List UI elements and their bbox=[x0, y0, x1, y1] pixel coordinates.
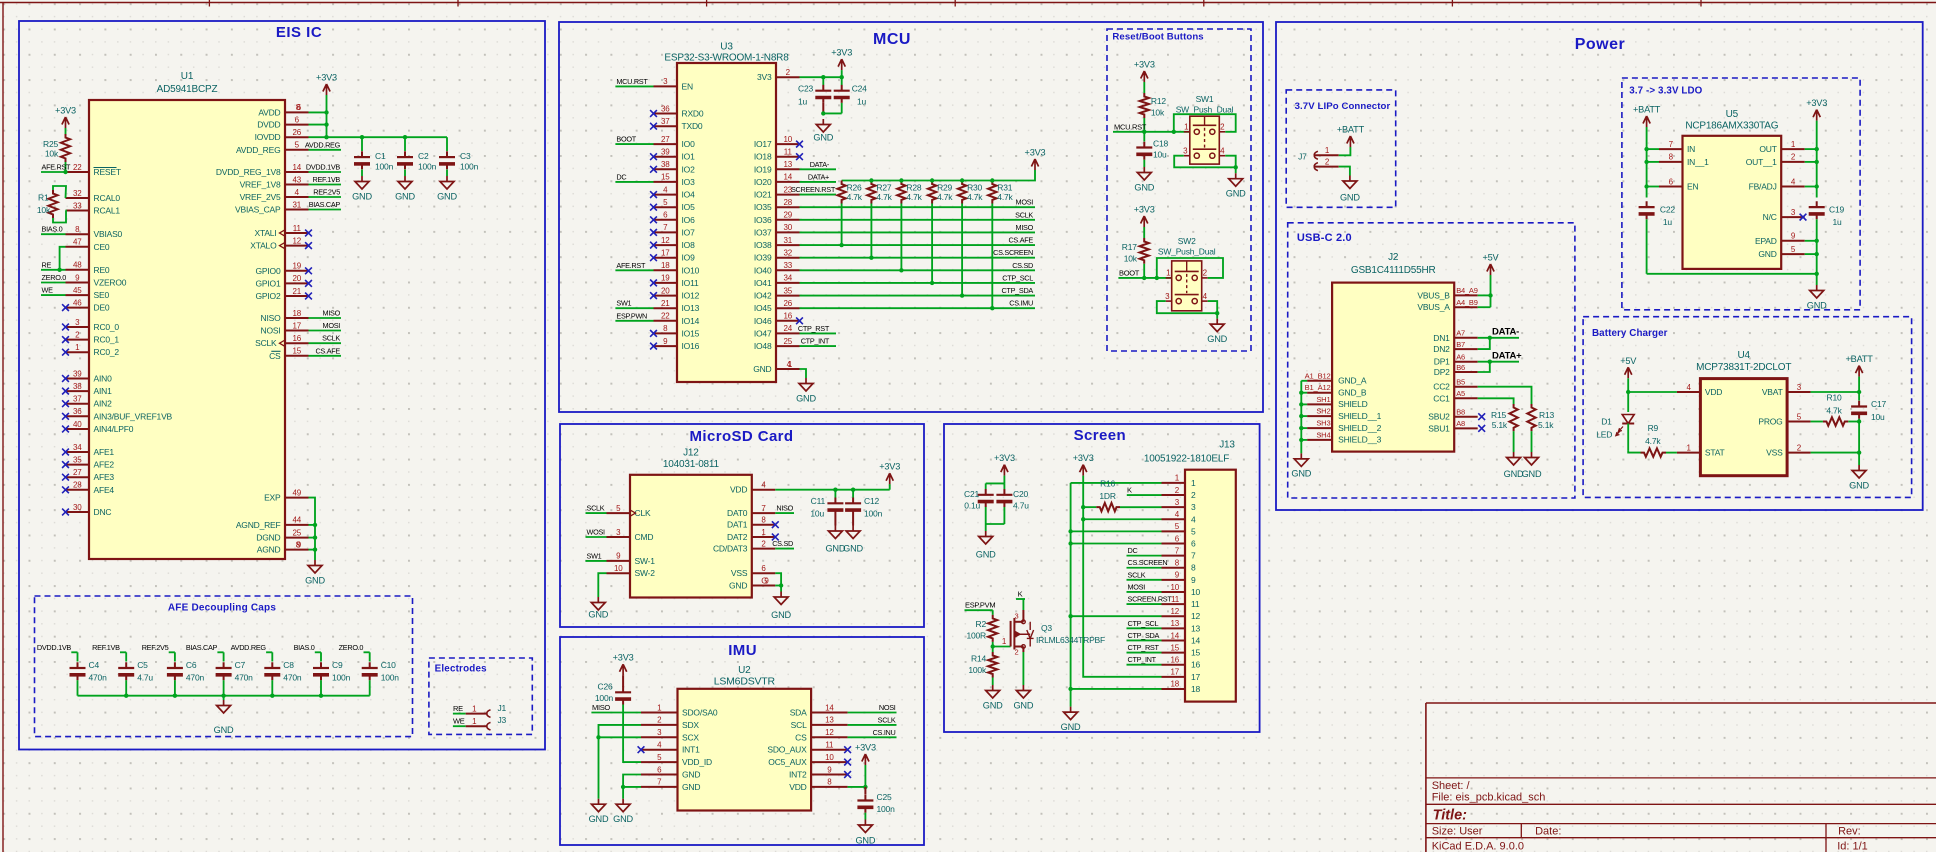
U5 pin 6 EN bbox=[1659, 177, 1698, 191]
svg-text:17: 17 bbox=[661, 249, 670, 258]
svg-text:U2: U2 bbox=[738, 665, 751, 676]
svg-text:44: 44 bbox=[293, 516, 302, 525]
capacitor C20 4.7u bbox=[996, 483, 1029, 524]
title block text KiCad bbox=[1432, 841, 1868, 852]
svg-text:SCREEN.RST: SCREEN.RST bbox=[791, 185, 836, 194]
svg-text:K: K bbox=[1127, 486, 1132, 495]
svg-text:IO21: IO21 bbox=[754, 190, 772, 200]
svg-text:VSS: VSS bbox=[1766, 448, 1783, 458]
svg-text:Title:: Title: bbox=[1433, 808, 1468, 824]
svg-text:VDD_ID: VDD_ID bbox=[682, 757, 712, 767]
svg-text:U4: U4 bbox=[1738, 350, 1751, 361]
svg-text:ESP32-S3-WROOM-1-N8R8: ESP32-S3-WROOM-1-N8R8 bbox=[664, 53, 789, 64]
connector J2 GSB1C4111D55HR body bbox=[1332, 252, 1454, 452]
label K at Q3 drain bbox=[1016, 590, 1025, 617]
U3 pin 39 IO1 bbox=[654, 148, 696, 162]
label NISO at DAT0 bbox=[775, 504, 794, 513]
capacitor C4 470n bbox=[70, 660, 108, 696]
U3 pin 25 IO48 bbox=[754, 337, 800, 351]
U1 pin 15 CS bbox=[269, 347, 308, 361]
svg-text:IO5: IO5 bbox=[682, 202, 696, 212]
svg-text:4.7k: 4.7k bbox=[906, 192, 922, 202]
U3 pin 19 IO11 bbox=[654, 274, 699, 288]
svg-text:IO48: IO48 bbox=[754, 341, 772, 351]
svg-text:IO1: IO1 bbox=[682, 152, 696, 162]
J13 pin 2 bbox=[1162, 486, 1197, 500]
switch SW2 SW_Push_Dual bbox=[1158, 236, 1216, 311]
J12 pin 10 SW-2 bbox=[607, 564, 656, 578]
wire J13 riser +3V3 bbox=[1081, 476, 1162, 677]
svg-text:SCLK: SCLK bbox=[878, 715, 896, 724]
U3 pin 16 IO46 bbox=[754, 312, 800, 326]
svg-text:35: 35 bbox=[73, 455, 82, 464]
svg-text:3: 3 bbox=[1165, 292, 1170, 301]
wire EPAD GND to rail bbox=[1805, 239, 1819, 257]
wire U3 GND pin bbox=[800, 369, 807, 378]
no-connect X bbox=[1478, 425, 1485, 432]
J12 pin 4 VDD bbox=[730, 481, 775, 495]
svg-text:12: 12 bbox=[661, 236, 670, 245]
U1 pin 4 VREF_2V5 bbox=[240, 188, 309, 202]
svg-text:GND: GND bbox=[976, 550, 996, 560]
svg-text:SCX: SCX bbox=[682, 732, 699, 742]
svg-text:5.1k: 5.1k bbox=[1538, 420, 1554, 430]
svg-text:XTALI: XTALI bbox=[255, 228, 277, 238]
wire R29 to row bbox=[930, 204, 934, 286]
U5 pin 3 N/C bbox=[1763, 208, 1805, 222]
svg-text:DGND: DGND bbox=[256, 533, 280, 543]
svg-text:AFE3: AFE3 bbox=[94, 472, 115, 482]
svg-text:BIAS.0: BIAS.0 bbox=[42, 225, 63, 234]
svg-text:B8: B8 bbox=[1456, 408, 1465, 417]
no-connect X bbox=[62, 336, 69, 343]
U1 pin 20 GPIO1 bbox=[256, 274, 309, 288]
ground C18 bbox=[1134, 167, 1154, 193]
svg-text:7: 7 bbox=[761, 504, 766, 513]
svg-text:SW1: SW1 bbox=[587, 551, 602, 560]
svg-text:C6: C6 bbox=[186, 660, 197, 670]
svg-text:MISO: MISO bbox=[592, 703, 610, 712]
no-connect X bbox=[62, 388, 69, 395]
svg-text:IO20: IO20 bbox=[754, 177, 772, 187]
svg-text:2: 2 bbox=[1191, 490, 1196, 500]
svg-text:100R: 100R bbox=[966, 631, 986, 641]
no-connect X bbox=[844, 746, 851, 753]
svg-text:MOSI: MOSI bbox=[1128, 582, 1146, 591]
svg-text:C24: C24 bbox=[852, 83, 867, 93]
svg-text:8: 8 bbox=[1191, 563, 1196, 573]
svg-text:Power: Power bbox=[1575, 36, 1626, 53]
transistor Q3 IRLML6344TRPBF bbox=[1011, 612, 1105, 657]
svg-text:WE: WE bbox=[42, 286, 54, 295]
J12 pin 7 DAT0 bbox=[727, 504, 775, 518]
J2 pin SH2 SHIELD__1 bbox=[1307, 407, 1382, 421]
wire GND pins to ground bbox=[621, 775, 641, 799]
ground SW2 bbox=[1207, 319, 1227, 345]
U3 pin 8 IO15 bbox=[654, 324, 700, 338]
U1 pin 5 AVDD_REG bbox=[236, 141, 309, 155]
no-connect X N/C bbox=[1800, 214, 1807, 221]
svg-text:8: 8 bbox=[827, 778, 832, 787]
no-connect X bbox=[62, 474, 69, 481]
svg-text:10u: 10u bbox=[1153, 150, 1167, 160]
U2 pin 2 SDX bbox=[641, 716, 699, 730]
U1 pin 14 DVDD_REG_1V8 bbox=[216, 163, 309, 177]
no-connect X bbox=[62, 324, 69, 331]
svg-text:3: 3 bbox=[1791, 208, 1796, 217]
svg-text:R16: R16 bbox=[1100, 479, 1115, 489]
resistor R27 4.7k bbox=[867, 181, 892, 204]
svg-text:40: 40 bbox=[73, 420, 82, 429]
svg-text:C18: C18 bbox=[1153, 139, 1168, 149]
svg-text:NISO: NISO bbox=[776, 504, 793, 513]
svg-text:4: 4 bbox=[1203, 292, 1208, 301]
ground U4 bbox=[1849, 465, 1869, 491]
junction R29 rail bbox=[930, 178, 934, 182]
svg-text:R13: R13 bbox=[1539, 410, 1554, 420]
svg-text:+3V3: +3V3 bbox=[316, 73, 337, 83]
U1 pin 25 DGND bbox=[256, 528, 308, 542]
no-connect X bbox=[62, 449, 69, 456]
svg-text:DVDD: DVDD bbox=[257, 120, 280, 130]
ground C12 bbox=[843, 526, 863, 554]
J13 pin 8 bbox=[1162, 559, 1197, 573]
svg-text:RE: RE bbox=[42, 260, 52, 269]
svg-text:GND: GND bbox=[843, 544, 863, 554]
J13 pin 5 bbox=[1162, 522, 1197, 536]
svg-text:CTP_RST: CTP_RST bbox=[798, 324, 830, 333]
U4 pin 2 VSS bbox=[1766, 443, 1810, 457]
wire caps bottom bbox=[986, 524, 1005, 531]
svg-text:OUT: OUT bbox=[1759, 144, 1776, 154]
svg-text:IO45: IO45 bbox=[754, 303, 772, 313]
ground U1 bbox=[305, 560, 325, 586]
junction R30 rail bbox=[960, 178, 964, 182]
svg-text:17: 17 bbox=[1191, 672, 1201, 682]
svg-text:VDD: VDD bbox=[789, 782, 806, 792]
svg-text:18: 18 bbox=[1191, 684, 1201, 694]
svg-text:48: 48 bbox=[73, 261, 82, 270]
svg-text:IO15: IO15 bbox=[682, 328, 700, 338]
svg-text:10k: 10k bbox=[1151, 108, 1165, 118]
svg-text:GND: GND bbox=[1061, 722, 1081, 732]
J2 pin A6 DP1 bbox=[1434, 353, 1478, 367]
no-connect X bbox=[62, 461, 69, 468]
svg-text:+3V3: +3V3 bbox=[1134, 205, 1155, 215]
svg-text:CTP_SCL: CTP_SCL bbox=[1002, 273, 1033, 282]
ground C25 bbox=[855, 820, 875, 846]
no-connect X bbox=[650, 330, 657, 337]
U3 pin 9 IO16 bbox=[654, 337, 700, 351]
svg-text:Q3: Q3 bbox=[1041, 623, 1052, 633]
svg-text:R12: R12 bbox=[1151, 96, 1166, 106]
ground SW1 bbox=[1226, 173, 1246, 199]
U1 pin 6 DVDD bbox=[257, 115, 308, 129]
svg-text:28: 28 bbox=[784, 198, 793, 207]
wire CE0 to RE0 bbox=[60, 247, 66, 270]
U3 pin 38 IO2 bbox=[654, 160, 696, 174]
svg-text:AFE4: AFE4 bbox=[94, 485, 115, 495]
U3 pin 33 IO40 bbox=[754, 261, 800, 275]
U3 pin 10 IO17 bbox=[754, 135, 800, 149]
no-connect X bbox=[650, 280, 657, 287]
svg-text:36: 36 bbox=[661, 104, 670, 113]
svg-text:IO46: IO46 bbox=[754, 316, 772, 326]
svg-text:CLK: CLK bbox=[635, 508, 651, 518]
U1 pin 28 AFE4 bbox=[66, 481, 115, 495]
svg-text:EN: EN bbox=[682, 81, 693, 91]
U3 pin 36 RXD0 bbox=[654, 104, 704, 118]
label REF.2V5 bbox=[309, 188, 342, 198]
U1 pin 33 RCAL1 bbox=[66, 201, 121, 215]
wire VSS GND to ground bbox=[775, 573, 783, 591]
J13 pin 11 bbox=[1162, 595, 1200, 609]
label CTP_SDA bbox=[1127, 631, 1162, 641]
label WOSI bbox=[586, 528, 607, 538]
label AVDD.REG bbox=[231, 643, 273, 661]
svg-text:0.1u: 0.1u bbox=[964, 501, 980, 511]
svg-text:C7: C7 bbox=[235, 660, 246, 670]
svg-text:10u: 10u bbox=[1871, 412, 1885, 422]
MCU U3 ESP32-S3-WROOM-1-N8R8 body bbox=[664, 42, 789, 383]
svg-text:GND: GND bbox=[305, 576, 325, 586]
clock chevron bbox=[280, 230, 286, 236]
svg-text:IO16: IO16 bbox=[682, 341, 700, 351]
label MCU.RST to SW1 bbox=[1113, 122, 1190, 134]
J13 pin 16 bbox=[1162, 656, 1201, 670]
svg-text:CC1: CC1 bbox=[1433, 393, 1450, 403]
svg-text:IOVDD: IOVDD bbox=[255, 132, 281, 142]
svg-text:34: 34 bbox=[784, 274, 793, 283]
svg-text:4.7k: 4.7k bbox=[1826, 406, 1842, 416]
U2 pin 14 SDA bbox=[790, 703, 848, 717]
svg-text:A4_B9: A4_B9 bbox=[1456, 298, 1478, 307]
label BIAS.0 at VBIAS0 bbox=[41, 225, 66, 235]
svg-text:DVDD.1VB: DVDD.1VB bbox=[306, 163, 341, 172]
svg-text:CS.SCREEN: CS.SCREEN bbox=[1128, 558, 1168, 567]
svg-text:SDA: SDA bbox=[790, 708, 807, 718]
svg-text:17: 17 bbox=[1171, 668, 1180, 677]
svg-text:1u: 1u bbox=[1663, 217, 1673, 227]
svg-text:AFE Decoupling Caps: AFE Decoupling Caps bbox=[168, 603, 276, 614]
U1 pin 21 GPIO2 bbox=[256, 287, 309, 301]
svg-text:CMD: CMD bbox=[635, 532, 654, 542]
J13 pin 4 bbox=[1162, 510, 1197, 524]
label BOOT to SW2 bbox=[1118, 268, 1172, 280]
U2 pin 3 SCX bbox=[641, 728, 699, 742]
svg-text:8: 8 bbox=[761, 516, 766, 525]
svg-text:11: 11 bbox=[784, 148, 793, 157]
wire CS.AFE row bbox=[800, 236, 1036, 246]
power +3V3 rail above U1 bbox=[316, 73, 337, 138]
svg-text:4.7k: 4.7k bbox=[967, 192, 983, 202]
U1 pin 2 RC0_1 bbox=[66, 330, 120, 344]
ground J2 shield bbox=[1291, 453, 1311, 478]
wire VBAT to +BATT bbox=[1811, 377, 1862, 395]
svg-text:+BATT: +BATT bbox=[1337, 125, 1365, 135]
svg-text:4.7u: 4.7u bbox=[137, 673, 153, 683]
wire C26 to VDD_ID bbox=[623, 705, 641, 763]
ground R13 bbox=[1522, 452, 1542, 479]
svg-text:FB/ADJ: FB/ADJ bbox=[1749, 182, 1777, 192]
svg-text:C10: C10 bbox=[381, 660, 396, 670]
U5 pin 8 IN__1 bbox=[1659, 153, 1709, 167]
svg-text:AFE1: AFE1 bbox=[94, 447, 115, 457]
svg-text:R17: R17 bbox=[1122, 242, 1137, 252]
no-connect X bbox=[305, 230, 312, 237]
resistor R1 10k loop bbox=[37, 186, 66, 223]
wire AVDD to rail bbox=[309, 110, 329, 114]
svg-text:34: 34 bbox=[73, 443, 82, 452]
svg-text:6: 6 bbox=[1191, 539, 1196, 549]
svg-text:IO13: IO13 bbox=[682, 303, 700, 313]
U3 pin 411 GND bbox=[753, 360, 799, 374]
svg-text:CS.IMU: CS.IMU bbox=[1009, 299, 1033, 308]
ground Q3 bbox=[1013, 685, 1033, 711]
svg-text:CS.SD: CS.SD bbox=[772, 539, 793, 548]
no-connect X bbox=[1478, 413, 1485, 420]
label BIAS.CAP bbox=[186, 643, 224, 661]
svg-text:C2: C2 bbox=[418, 151, 429, 161]
U4 pin 5 PROG bbox=[1758, 412, 1810, 426]
no-connect X bbox=[305, 267, 312, 274]
capacitor C2 100n bbox=[397, 137, 437, 176]
junction R28 rail bbox=[899, 178, 903, 182]
svg-text:ESP.PVM: ESP.PVM bbox=[965, 601, 995, 610]
svg-text:12: 12 bbox=[825, 728, 834, 737]
title block text Size Date bbox=[1432, 826, 1861, 838]
label SW1 bbox=[615, 299, 653, 309]
svg-text:DNC: DNC bbox=[94, 507, 112, 517]
svg-text:GSB1C4111D55HR: GSB1C4111D55HR bbox=[1351, 265, 1436, 276]
label REF.2V5 bbox=[142, 643, 175, 661]
svg-text:SH1: SH1 bbox=[1316, 395, 1330, 404]
wire +5V to VDD bbox=[1626, 378, 1677, 412]
wire R30 to row bbox=[960, 204, 964, 298]
resistor R30 4.7k bbox=[958, 181, 983, 204]
svg-text:C1: C1 bbox=[375, 151, 386, 161]
no-connect X bbox=[62, 426, 69, 433]
svg-text:SCLK: SCLK bbox=[1128, 570, 1146, 579]
sub-box Electrodes bbox=[429, 658, 532, 734]
svg-text:IO41: IO41 bbox=[754, 278, 772, 288]
svg-text:16: 16 bbox=[1171, 656, 1180, 665]
J2 pin A7 DN1 bbox=[1433, 329, 1477, 343]
U1 pin 8 VBIAS0 bbox=[66, 225, 123, 239]
svg-text:EIS IC: EIS IC bbox=[276, 24, 322, 41]
svg-text:4: 4 bbox=[1220, 146, 1225, 155]
svg-text:IO12: IO12 bbox=[682, 291, 700, 301]
wire R26 to row bbox=[839, 204, 843, 248]
svg-text:2: 2 bbox=[1791, 153, 1796, 162]
wire +BATT to U5 inputs bbox=[1644, 127, 1659, 198]
label CTP_SCL bbox=[1127, 619, 1162, 629]
svg-text:ZERO.0: ZERO.0 bbox=[339, 643, 364, 652]
svg-text:43: 43 bbox=[293, 175, 302, 184]
U5 pin 9 EPAD bbox=[1755, 232, 1805, 246]
svg-text:13: 13 bbox=[825, 716, 834, 725]
svg-text:AIN4/LPF0: AIN4/LPF0 bbox=[94, 424, 134, 434]
J2 pin B5 CC2 bbox=[1433, 378, 1477, 392]
svg-text:CTP_INT: CTP_INT bbox=[1128, 655, 1157, 664]
svg-text:AFE.RST: AFE.RST bbox=[42, 163, 72, 172]
label DC bbox=[1127, 546, 1162, 556]
U1 pin 16 SCLK bbox=[255, 334, 308, 348]
svg-text:SE0: SE0 bbox=[94, 290, 110, 300]
svg-text:SW_Push_Dual: SW_Push_Dual bbox=[1158, 247, 1216, 257]
J2 pin SH4 SHIELD__3 bbox=[1307, 430, 1382, 444]
svg-text:EXP: EXP bbox=[264, 493, 281, 503]
capacitor C9 100n bbox=[313, 660, 351, 696]
svg-text:26: 26 bbox=[784, 299, 793, 308]
svg-text:SW-2: SW-2 bbox=[635, 568, 656, 578]
svg-text:DATA-: DATA- bbox=[810, 160, 830, 169]
svg-text:C3: C3 bbox=[460, 151, 471, 161]
U1 pin 37 AIN2 bbox=[66, 395, 113, 409]
svg-text:C11: C11 bbox=[811, 496, 826, 506]
svg-text:GND: GND bbox=[682, 770, 700, 780]
label SCREEN.RST bbox=[1127, 595, 1173, 605]
U2 pin 7 GND bbox=[641, 778, 700, 792]
no-connect X bbox=[796, 153, 803, 160]
svg-text:GPIO0: GPIO0 bbox=[256, 266, 281, 276]
svg-text:45: 45 bbox=[73, 286, 82, 295]
svg-text:GND: GND bbox=[1340, 193, 1360, 203]
capacitor C8 470n bbox=[264, 660, 302, 696]
svg-text:IO6: IO6 bbox=[682, 215, 696, 225]
svg-text:BIAS.CAP: BIAS.CAP bbox=[309, 200, 341, 209]
U1 pin 86 AVDD bbox=[258, 103, 308, 117]
svg-text:20: 20 bbox=[661, 286, 670, 295]
svg-text:OUT__1: OUT__1 bbox=[1746, 157, 1777, 167]
U2 pin 6 GND bbox=[641, 765, 700, 779]
U1 pin 44 AGND_REF bbox=[236, 516, 309, 530]
power +BATT at J7 bbox=[1337, 125, 1365, 148]
label MISO to SDO/SA0 bbox=[591, 703, 641, 713]
svg-text:4.7k: 4.7k bbox=[937, 192, 953, 202]
svg-text:C17: C17 bbox=[1871, 399, 1886, 409]
svg-text:15: 15 bbox=[1171, 643, 1180, 652]
switch SW1 SW_Push_Dual bbox=[1176, 94, 1234, 164]
svg-text:SHIELD__2: SHIELD__2 bbox=[1338, 423, 1382, 433]
svg-text:12: 12 bbox=[1191, 611, 1201, 621]
svg-text:SH4: SH4 bbox=[1316, 430, 1330, 439]
capacitor C1 100n bbox=[354, 137, 394, 176]
svg-text:WE: WE bbox=[453, 717, 465, 726]
svg-text:27: 27 bbox=[73, 468, 82, 477]
svg-text:B1_A12: B1_A12 bbox=[1305, 383, 1331, 392]
no-connect X bbox=[62, 375, 69, 382]
label DC bbox=[615, 172, 653, 182]
svg-text:1: 1 bbox=[1191, 478, 1196, 488]
svg-text:VBIAS_CAP: VBIAS_CAP bbox=[235, 205, 281, 215]
svg-text:IO0: IO0 bbox=[682, 139, 696, 149]
wire SDX SCX to ground bbox=[596, 725, 641, 799]
svg-text:14: 14 bbox=[1171, 631, 1180, 640]
U5 pin 5 GND bbox=[1758, 245, 1804, 259]
svg-text:J3: J3 bbox=[498, 715, 507, 725]
wire R28 to row bbox=[899, 204, 903, 273]
svg-text:CTP_SDA: CTP_SDA bbox=[1001, 286, 1033, 295]
label CS.SCREEN bbox=[1127, 558, 1168, 568]
svg-text:SCREEN.RST: SCREEN.RST bbox=[1128, 595, 1173, 604]
U2 pin 11 SDO_AUX bbox=[767, 741, 847, 755]
ground J7 bbox=[1340, 176, 1360, 203]
svg-text:DAT2: DAT2 bbox=[727, 532, 748, 542]
U3 pin 7 IO7 bbox=[654, 223, 696, 237]
svg-text:39: 39 bbox=[73, 369, 82, 378]
capacitor C21 0.1u bbox=[964, 483, 994, 524]
